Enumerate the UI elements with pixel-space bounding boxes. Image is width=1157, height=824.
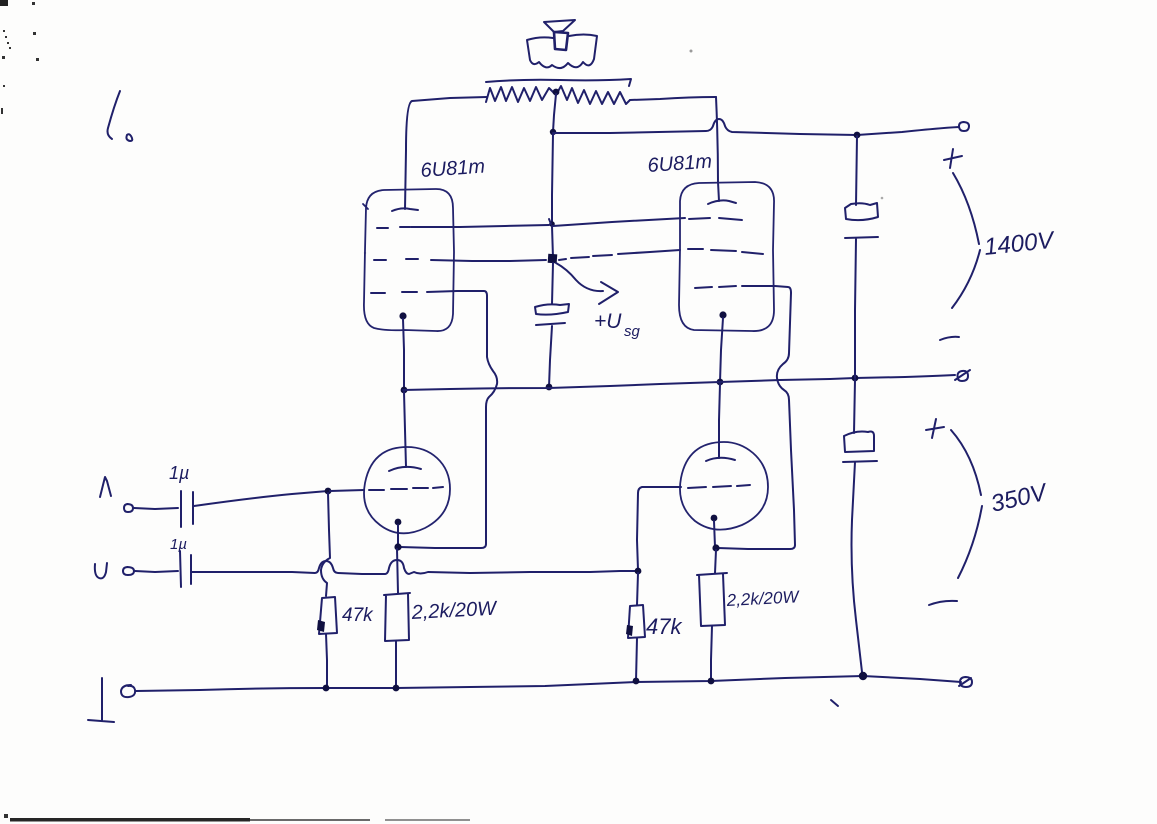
tube V1 cathode (399, 312, 406, 319)
wire ground rail to right terminal (863, 676, 961, 682)
capacitor C5 LT filter top plate (844, 432, 874, 453)
wire U line with two hops to V4 grid junction (192, 560, 636, 574)
brace 350V (951, 430, 982, 578)
wire V4 grid junction to R3 (637, 573, 638, 605)
speck artifacts top left (1, 2, 39, 114)
label + (1400V) (944, 149, 962, 168)
svg-text:6U81m: 6U81m (420, 156, 486, 182)
node HT rail junction (550, 129, 556, 135)
resistor R4 2.2k/20W (697, 573, 727, 626)
wire screen node to bypass cap (552, 263, 553, 304)
node ground R1 (323, 685, 330, 692)
ground symbol (88, 678, 114, 722)
capacitor C3 bottom plate (536, 323, 565, 325)
triode V3 grid dashes (369, 487, 443, 490)
wire V4 anode lead (719, 384, 720, 458)
terminal ground right (959, 677, 972, 687)
wire crossing down to screen node (552, 226, 553, 258)
wire C1 to grid junction (194, 491, 328, 506)
terminal input U (123, 567, 134, 575)
wire right feedback drop with hop over mid rail (718, 293, 795, 549)
wire V3 cathode down (397, 525, 399, 547)
tube V2 GU81M envelope (679, 182, 774, 331)
wire left anode riser (405, 97, 487, 209)
node +Usg screen node (548, 254, 558, 264)
capacitor C5 bottom plate (843, 461, 877, 462)
triode V4 cathode (711, 515, 718, 522)
node rail capacitor junction (854, 132, 861, 139)
svg-text:+U: +U (594, 310, 622, 333)
wire cathode junction through hop to R2 (397, 549, 398, 593)
resistor R3 47k (628, 605, 645, 638)
wire junction to V3 grid (330, 490, 364, 491)
tube V1 grid1 dashes (377, 227, 410, 228)
triode V4 grid dashes (688, 485, 750, 488)
terminal mid rail (955, 370, 970, 381)
node ground R2 (393, 685, 400, 692)
wire V1 cathode down (403, 319, 404, 390)
wire input U to C2 (135, 571, 178, 572)
node center tap (553, 89, 560, 96)
wire C4 leads (855, 136, 857, 378)
wire V4 cathode down (714, 521, 715, 547)
wire V3 anode lead (404, 392, 406, 467)
svg-text:1µ: 1µ (169, 463, 189, 483)
label + (350V) (926, 419, 944, 438)
transformer T1 primary winding (486, 86, 630, 104)
wire V4 grid lead left and down (637, 487, 681, 570)
wire R4 to ground (711, 626, 712, 681)
tube V2 anode plate (708, 200, 736, 204)
node U grid junction V4 (635, 568, 642, 575)
triode V3 cathode (395, 519, 402, 526)
node mid rail left (401, 387, 408, 394)
triode V3 envelope (364, 447, 450, 533)
label input A symbol (100, 477, 111, 497)
svg-text:2,2k/20W: 2,2k/20W (410, 597, 499, 624)
label input U symbol (95, 563, 107, 578)
node grid bus crossing (549, 221, 555, 227)
faint specks (690, 50, 693, 53)
tube V2 grid3 dashes (695, 286, 736, 288)
node cathode feedback junction right (712, 544, 719, 551)
node ground R3 (633, 678, 640, 685)
capacitor C1 plates (181, 491, 193, 527)
resistor R1 47k (319, 597, 337, 634)
wire R1 to ground (326, 634, 327, 688)
bottom scanner streak (10, 818, 250, 822)
svg-text:2,2k/20W: 2,2k/20W (725, 587, 801, 610)
wire C5 leads (852, 380, 863, 672)
tube V2 grid2 dashes (688, 249, 763, 254)
wire screen bus to V2 dashed (559, 250, 680, 260)
node mid rail right (717, 379, 724, 386)
wire R3 to ground (636, 638, 637, 681)
triode V4 envelope (680, 442, 768, 530)
svg-text:47k: 47k (646, 614, 682, 639)
label "1." page number (108, 91, 121, 139)
label minus (1400V) (940, 337, 959, 340)
label minus (350V) (929, 601, 957, 605)
speaker LS1 magnet (554, 32, 568, 50)
node grid junction V3 (325, 488, 332, 495)
svg-text:47k: 47k (342, 605, 374, 626)
wire R2 to ground (395, 641, 397, 688)
tube V1 GU81M envelope (364, 189, 454, 331)
svg-text:sg: sg (624, 323, 641, 340)
transformer T1 core line (486, 79, 631, 86)
scanner corner artifact (0, 0, 8, 6)
wire junction down to R1 with jog (321, 493, 330, 596)
stray pen tick bottom right (831, 700, 838, 706)
wire right anode drop (716, 97, 719, 201)
tube V1 anode plate (392, 208, 418, 211)
triode V3 anode (389, 467, 421, 471)
terminal ground left (121, 685, 135, 697)
wire C3 to mid rail (549, 326, 552, 387)
wire +1400V rail with hop over right anode lead (553, 119, 959, 135)
arrow to screen node (556, 263, 603, 291)
wire screen bus down from rail (552, 134, 553, 224)
wire winding to right anode drop (630, 97, 716, 100)
wire V1 grid3 to feedback drop (427, 291, 487, 296)
node mid rail right cap (852, 375, 859, 382)
node ground right cap (859, 672, 867, 680)
wire mid rail (-1400/+350) (403, 375, 955, 390)
speaker LS1 frame (527, 35, 597, 69)
wire V2 grid3 to right feedback drop (742, 286, 791, 293)
wire center tap down (553, 94, 556, 132)
wire screen bus V1 side (431, 260, 546, 261)
tube V2 cathode (719, 311, 726, 318)
node mid rail C3 junction (546, 384, 553, 391)
capacitor C3 screen bypass top plate (535, 304, 569, 315)
svg-text:6U81m: 6U81m (647, 151, 713, 177)
wire grid1 bus V1 to V2 (411, 218, 685, 227)
tube V2 grid1 dashes (689, 218, 742, 220)
triode V4 anode (706, 458, 735, 461)
tube V1 pip (363, 204, 368, 209)
resistor R2 2.2k/20W (384, 593, 410, 641)
node ground R4 (708, 678, 715, 685)
capacitor C4 bottom plate (845, 237, 878, 238)
terminal input A (124, 504, 133, 512)
tube V1 grid3 dashes (371, 292, 417, 293)
tube V1 grid2 dashes (374, 259, 418, 260)
wire feedback drop left with hop over mid rail (400, 296, 497, 548)
wire cathode junction to R4 (715, 550, 716, 573)
node cathode feedback junction left (394, 543, 401, 550)
capacitor C2 plates (180, 551, 191, 587)
terminal +1400V (959, 122, 969, 131)
speaker LS1 cone (544, 20, 575, 32)
brace 1400V (952, 173, 980, 308)
wire V2 cathode down (720, 318, 723, 382)
capacitor C4 HT filter top plate (845, 203, 878, 220)
wire ground rail (136, 676, 863, 691)
svg-text:1µ: 1µ (170, 536, 187, 553)
wire input A to C1 (134, 508, 178, 509)
